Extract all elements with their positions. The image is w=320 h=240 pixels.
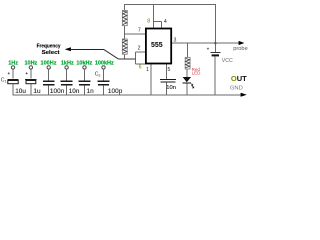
svg-text:4: 4 [164, 19, 167, 25]
wire battery to ground rail [214, 56, 216, 94]
svg-text:+: + [207, 46, 210, 51]
svg-text:VCC: VCC [222, 58, 233, 64]
node switch contact 100Hz [47, 66, 50, 69]
svg-text:+: + [25, 71, 28, 76]
wire wiper horizontal to jumper [119, 58, 136, 60]
capacitor C1 10u electrolytic [7, 78, 18, 80]
wire pin 2 [136, 51, 146, 53]
svg-text:10n: 10n [166, 85, 176, 91]
node switch contact 10kHz [83, 66, 86, 69]
svg-text:+: + [7, 71, 10, 76]
capacitor C6 100p [98, 80, 110, 82]
svg-text:8: 8 [147, 18, 150, 24]
resistor R1 [122, 10, 127, 25]
wire battery stub [214, 43, 216, 52]
wire contact to C5 [84, 69, 86, 81]
capacitor C5 1n [79, 80, 91, 82]
svg-text:probe: probe [233, 46, 248, 52]
wire ground rail [13, 84, 241, 95]
svg-text:1: 1 [146, 67, 149, 73]
wire LED to ground rail [186, 83, 188, 94]
svg-text:100kHz: 100kHz [95, 60, 114, 66]
svg-text:1u: 1u [33, 88, 41, 95]
svg-text:1n: 1n [87, 88, 95, 95]
wire frequency select arrow line [70, 48, 104, 50]
LED D1 [183, 77, 194, 88]
node switch contact 1Hz [11, 66, 14, 69]
svg-text:7: 7 [138, 28, 141, 34]
resistor R3 LED series [185, 57, 190, 69]
capacitor C7 10n pin5 decoupling [160, 79, 176, 90]
svg-text:GND: GND [230, 85, 243, 91]
node switch contact 1kHz [65, 66, 68, 69]
timer IC U1 555 [146, 29, 171, 64]
svg-text:2: 2 [138, 45, 141, 51]
wire pin8 to pin4 link [154, 20, 162, 22]
capacitor C4 10n [61, 80, 73, 82]
wire pin 7 [124, 33, 145, 35]
node switch contact 100kHz [102, 66, 105, 69]
wire contact to C6 [103, 69, 105, 81]
svg-text:100n: 100n [50, 88, 65, 95]
frequency select arrowhead [65, 47, 71, 51]
GND arrowhead [241, 93, 247, 97]
wire R1 to R2 with pin7 tap [123, 26, 125, 39]
wire contact to C1 [12, 69, 14, 79]
resistor R2 [122, 39, 127, 54]
wire pin 8 drop [153, 5, 155, 28]
capacitor C3 100n [43, 80, 55, 82]
wire pin 4 drop [160, 21, 162, 27]
battery B1 supply [207, 46, 221, 56]
wire pin 1 to ground rail [150, 64, 152, 95]
wire contact to C2 [30, 69, 32, 79]
node VCC junction dot [214, 42, 216, 44]
wire pin 6 [136, 63, 146, 65]
capacitor C2 1u electrolytic [25, 78, 36, 80]
probe arrowhead [239, 41, 245, 45]
wire R2 bottom stub [123, 54, 125, 59]
svg-text:Select: Select [42, 50, 60, 56]
node switch contact 10Hz [29, 66, 32, 69]
wire pin 5 to 10n cap [165, 64, 167, 79]
wire pin2/pin6 jumper [135, 52, 137, 64]
svg-text:LED: LED [192, 71, 202, 76]
wire switch wiper diagonal [104, 49, 119, 59]
wire 10n cap to ground rail [165, 83, 167, 95]
svg-text:10Hz: 10Hz [24, 60, 37, 66]
wire VCC top rail [124, 5, 215, 44]
wire pin 3 output [172, 42, 239, 44]
svg-text:6: 6 [139, 64, 142, 70]
svg-text:3: 3 [174, 38, 177, 44]
wire LED branch drop [187, 43, 189, 57]
svg-text:100p: 100p [108, 88, 123, 95]
svg-text:5: 5 [168, 67, 171, 73]
svg-text:10u: 10u [15, 88, 26, 95]
svg-text:1kHz: 1kHz [61, 60, 74, 66]
wire resistor R3 to LED [186, 69, 188, 77]
wire contact to C3 [48, 69, 50, 81]
svg-text:1Hz: 1Hz [8, 60, 18, 66]
svg-text:OUT: OUT [231, 74, 247, 83]
wire contact to C4 [66, 69, 68, 81]
svg-text:10kHz: 10kHz [76, 60, 92, 66]
svg-text:Frequency: Frequency [37, 44, 62, 50]
svg-text:555: 555 [151, 42, 163, 49]
svg-text:100Hz: 100Hz [41, 60, 57, 66]
svg-text:10n: 10n [69, 88, 80, 95]
